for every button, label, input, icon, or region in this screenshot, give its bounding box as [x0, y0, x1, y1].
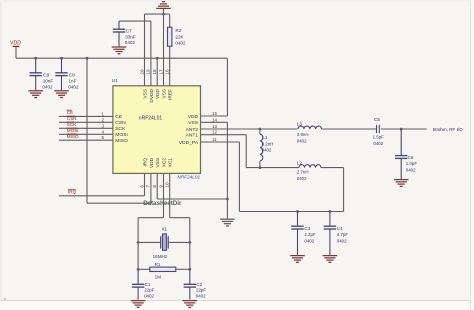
svg-text:33nF: 33nF [125, 34, 136, 39]
node ANT2-L1 [259, 128, 262, 131]
wire MOSI [59, 133, 113, 135]
svg-text:12: 12 [212, 130, 217, 135]
svg-text:5: 5 [102, 135, 105, 140]
net label CE [67, 110, 74, 115]
capacitor C2 [184, 269, 196, 299]
svg-text:1: 1 [102, 111, 105, 116]
svg-text:1.0pF: 1.0pF [406, 161, 418, 166]
svg-text:nRF24L01: nRF24L01 [139, 116, 163, 122]
label C9 10nF 0402 [42, 73, 53, 90]
svg-text:18: 18 [152, 69, 157, 75]
svg-text:CSN: CSN [115, 120, 126, 126]
svg-text:ANT1: ANT1 [186, 133, 199, 139]
svg-text:VDD: VDD [149, 157, 155, 168]
svg-text:X1: X1 [161, 226, 167, 231]
svg-text:C3: C3 [304, 226, 310, 231]
svg-text:VDD: VDD [10, 41, 21, 47]
capacitor C5 [377, 125, 427, 133]
wire SCK [59, 127, 113, 129]
power symbol VDD [10, 41, 21, 59]
svg-text:VDD_PA: VDD_PA [179, 140, 199, 146]
inductor L2 [295, 165, 344, 168]
svg-text:R1: R1 [155, 262, 161, 267]
pin numbers top 20 19 18 17 16 [139, 69, 169, 75]
wire ANT2 [201, 128, 298, 130]
capacitor C6 [395, 129, 407, 180]
inductor L3 [298, 126, 377, 129]
wire VDD_PA loop [201, 142, 344, 212]
svg-text:VDD: VDD [188, 114, 199, 120]
svg-text:SCK: SCK [67, 122, 77, 127]
label L1 8.2nH 0402 [262, 135, 274, 153]
svg-text:CSN: CSN [67, 116, 77, 121]
node VDD-C9 [34, 57, 37, 60]
inductor L1 [260, 129, 263, 168]
node C3 top [296, 210, 299, 213]
svg-text:C5: C5 [374, 117, 380, 122]
IC U1 nRF24L01 body [113, 86, 201, 174]
page background artifacts [0, 0, 474, 2]
wire VDD pin18 up [156, 58, 158, 86]
label R2 22K 0402 [175, 28, 186, 46]
svg-text:L1: L1 [262, 135, 268, 140]
node R1 left [137, 268, 140, 271]
svg-text:10nF: 10nF [43, 79, 54, 84]
wire XC2 pin9 to left rail [138, 173, 163, 242]
svg-text:17: 17 [158, 69, 163, 75]
crystal X1 [138, 234, 190, 250]
label C7 33nF 0402 [125, 28, 136, 45]
capacitor C9 [30, 58, 42, 90]
pin names left CE CSN SCK MOSI MISO [115, 114, 128, 144]
svg-text:22pF: 22pF [144, 288, 154, 293]
net label IRQ [68, 189, 77, 194]
svg-text:2: 2 [102, 117, 105, 122]
svg-text:1.5pF: 1.5pF [373, 135, 385, 140]
node R1 right [188, 268, 191, 271]
svg-text:0402: 0402 [406, 167, 416, 172]
svg-text:L2: L2 [297, 160, 303, 165]
wire VDD branch to pin 7 [87, 58, 151, 203]
svg-text:8.2nH: 8.2nH [262, 141, 274, 146]
svg-text:20: 20 [139, 69, 144, 75]
ground C7 [112, 47, 127, 54]
svg-text:0402: 0402 [337, 239, 347, 244]
svg-text:VSS: VSS [161, 89, 167, 99]
svg-text:13: 13 [212, 124, 217, 129]
wire MISO [59, 139, 113, 141]
svg-text:0402: 0402 [262, 148, 272, 153]
wire top ground horizontal [145, 13, 170, 15]
pin numbers right 15 14 13 12 11 [212, 111, 217, 142]
ground C4 [323, 256, 338, 263]
pin names right VDD VSS ANT2 ANT1 VDD_PA [179, 114, 199, 146]
svg-text:0402: 0402 [68, 84, 79, 89]
svg-text:4.7pF: 4.7pF [337, 232, 349, 237]
label C4 4.7pF 0402 [337, 226, 349, 244]
svg-text:SCK: SCK [115, 126, 126, 132]
svg-text:CE: CE [67, 110, 73, 115]
svg-text:IRQ: IRQ [142, 158, 148, 167]
svg-text:2.2pF: 2.2pF [304, 232, 316, 237]
svg-text:0402: 0402 [297, 138, 307, 143]
node VDD-pin18 [156, 57, 159, 60]
ground C9 [28, 91, 43, 98]
svg-text:C4: C4 [337, 226, 343, 231]
node VSS junction [226, 198, 229, 201]
svg-text:11: 11 [212, 137, 217, 142]
svg-text:0402: 0402 [175, 41, 186, 46]
svg-text:C2: C2 [196, 282, 202, 287]
wire CSN [59, 121, 113, 123]
resistor R1 [138, 242, 190, 271]
wire pin14 VSS [201, 122, 228, 218]
label C3 2.2pF 0402 [304, 226, 316, 244]
svg-text:4: 4 [102, 129, 105, 134]
pin names top VSS DVDD VDD VSS IREF [142, 88, 173, 102]
svg-text:XC1: XC1 [168, 158, 174, 168]
net label MOSI [67, 128, 79, 133]
node X1 left [137, 241, 140, 244]
svg-text:DVDD: DVDD [149, 88, 155, 102]
ground C6 [394, 180, 409, 187]
wire VDD rail drop to pin 15 [226, 58, 228, 116]
svg-text:0402: 0402 [125, 40, 136, 45]
pin names bottom IRQ VDD VSS XC2 XC1 [142, 157, 173, 168]
capacitor C4 [324, 212, 336, 256]
svg-text:0402: 0402 [42, 84, 53, 89]
label C8 1nF 0402 [68, 73, 79, 90]
node C4 top [329, 210, 332, 213]
svg-text:CE: CE [115, 114, 123, 120]
ground C3 [290, 256, 305, 263]
svg-text:0402: 0402 [297, 176, 307, 181]
svg-text:9: 9 [158, 185, 163, 188]
svg-text:22pF: 22pF [196, 288, 206, 293]
svg-text:0402: 0402 [196, 294, 206, 299]
capacitor C3 [291, 212, 303, 256]
label C6 1.0pF 0402 [406, 155, 418, 173]
svg-text:14: 14 [212, 117, 217, 122]
wire VSS pin17 up [163, 14, 165, 86]
svg-text:MOSI: MOSI [115, 132, 128, 138]
wire IRQ [59, 173, 145, 195]
ground C2 [183, 301, 198, 308]
wire VDD rail [16, 57, 227, 59]
wire CE [59, 115, 113, 117]
node VDD-branch [86, 57, 89, 60]
svg-text:19: 19 [146, 69, 151, 75]
svg-text:NRF24L01: NRF24L01 [177, 175, 200, 180]
label C2 22pF 0402 [196, 282, 207, 299]
svg-text:8: 8 [152, 185, 157, 188]
svg-text:1M: 1M [155, 274, 162, 279]
svg-text:6: 6 [139, 185, 144, 188]
svg-text:R2: R2 [175, 28, 181, 34]
pin numbers left 1 2 3 4 5 [102, 111, 105, 140]
node L1 bottom [259, 166, 262, 169]
svg-text:22K: 22K [175, 34, 184, 39]
wire VSS pin8 to ground rail [157, 173, 227, 199]
capacitor C8 [55, 58, 67, 90]
svg-text:MOSI: MOSI [67, 128, 79, 133]
svg-text:0402: 0402 [373, 141, 383, 146]
wire mid node [246, 167, 295, 169]
svg-text:50ohm, RF I/O: 50ohm, RF I/O [433, 127, 464, 132]
node VDD-C8 [60, 57, 63, 60]
wire VSS pin20 up [144, 14, 146, 86]
svg-text:ANT2: ANT2 [186, 127, 199, 133]
svg-text:10: 10 [165, 182, 170, 188]
svg-text:IREF: IREF [168, 89, 174, 100]
net label CSN [67, 116, 77, 121]
label C5 1.5pF 0402 [373, 117, 385, 146]
ground VSS chain [220, 219, 235, 226]
svg-text:C6: C6 [408, 155, 414, 160]
svg-text:L3: L3 [297, 122, 303, 127]
svg-text:16MHz: 16MHz [153, 254, 168, 259]
net label SCK [67, 122, 78, 127]
wire XC1 pin10 to right rail [170, 173, 190, 242]
svg-text:15: 15 [212, 111, 217, 116]
label C1 22pF 0402 [144, 282, 155, 299]
label L3 3.9nH 0402 [297, 122, 309, 144]
resistor R2 [168, 14, 172, 86]
svg-text:1nF: 1nF [69, 79, 77, 84]
label L2 2.7nH 0402 [297, 160, 309, 180]
svg-text:0402: 0402 [144, 294, 154, 299]
svg-text:VDD: VDD [155, 88, 161, 99]
capacitor C1 [132, 269, 144, 299]
svg-text:VSS: VSS [155, 158, 161, 168]
svg-text:3.9nH: 3.9nH [297, 132, 309, 137]
svg-text:7: 7 [146, 185, 151, 188]
svg-text:0402: 0402 [304, 239, 314, 244]
wire ANT1 [201, 135, 247, 168]
pin numbers bottom 6 7 8 9 10 [139, 182, 169, 188]
svg-text:MISO: MISO [115, 138, 128, 144]
svg-text:3: 3 [102, 123, 105, 128]
node C5-C6 [400, 128, 403, 131]
svg-text:VSS: VSS [188, 120, 199, 126]
svg-text:2.7nH: 2.7nH [297, 170, 309, 175]
wire pin15 VDD [201, 115, 228, 117]
svg-text:16: 16 [165, 69, 170, 75]
svg-text:VSS: VSS [142, 89, 148, 99]
svg-text:XC2: XC2 [161, 158, 167, 168]
svg-text:C1: C1 [145, 282, 151, 287]
ground C8 [54, 91, 69, 98]
capacitor C7 [113, 21, 151, 86]
net label MISO [67, 134, 79, 139]
svg-text:U1: U1 [112, 78, 118, 84]
ground top GND [156, 2, 171, 14]
svg-text:MISO: MISO [67, 134, 79, 139]
svg-text:DatasheetDir: DatasheetDir [143, 200, 182, 207]
node top ground junction [162, 13, 165, 16]
ground C1 [131, 301, 146, 308]
node X1 right [188, 241, 191, 244]
